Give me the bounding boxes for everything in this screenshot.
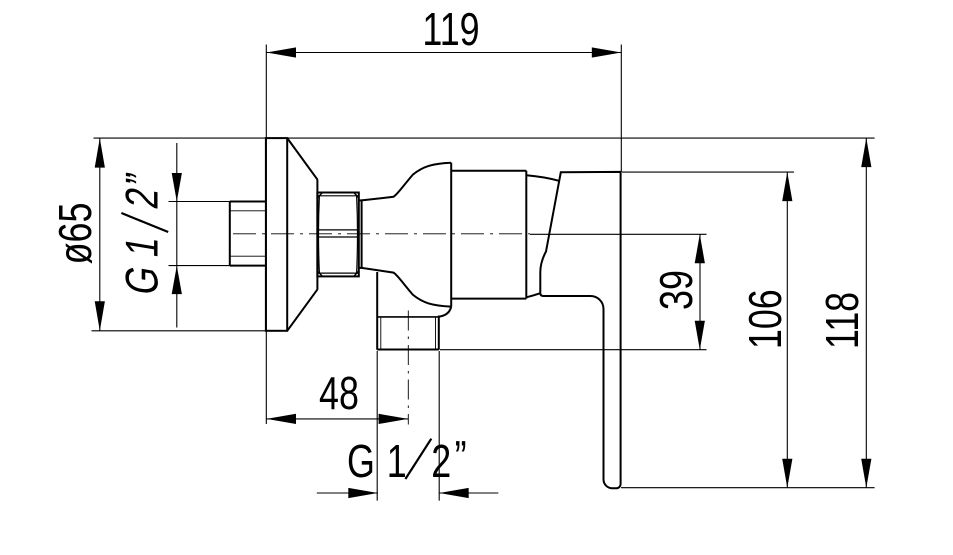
handle outline (540, 172, 620, 488)
dimension G12 top arrow (points down) (172, 173, 182, 202)
dimension 39 top arrow (695, 234, 705, 263)
body neck bottom curve (362, 268, 452, 307)
extension line flange bottom (dim phi65) (92, 330, 266, 332)
svg-text:106: 106 (740, 289, 791, 349)
dimension 48 left arrow (267, 414, 297, 424)
outlet left edge (376, 272, 378, 350)
dimension 118 bottom arrow (861, 459, 871, 488)
outlet thread top line (377, 316, 439, 318)
dimension 106 top arrow (782, 172, 792, 201)
nut right facet arc (356, 196, 359, 273)
bottom thread dim left tail (317, 492, 378, 494)
horizontal centerline dash-dot (233, 233, 530, 235)
G12 bottom extension line (169, 265, 230, 267)
label G 1/2 left fraction slash (121, 213, 168, 232)
cylinder right edge (525, 171, 527, 299)
nut corner chamfer marks (317, 193, 358, 277)
dimension phi65 line (99, 138, 101, 331)
dimension 119 right arrow (592, 47, 622, 57)
inlet stub outline (230, 202, 266, 266)
bottom thread dim left arrow (points right) (348, 488, 378, 498)
outlet thread bottom line (377, 349, 439, 351)
dimension 39 line (699, 234, 701, 349)
nut top inner line (317, 195, 358, 197)
cylinder bottom edge (451, 298, 526, 300)
dimension 119 left arrow (267, 47, 297, 57)
nut left facet arc (318, 196, 321, 273)
dimension 118 top arrow (861, 138, 871, 167)
adapter ring (359, 200, 362, 268)
flange cone lower diagonal (288, 289, 318, 330)
svg-text:118: 118 (817, 292, 868, 349)
dimension 106 bottom arrow (782, 459, 792, 488)
dimension 48 right arrow (379, 414, 409, 424)
flange cone upper diagonal (288, 139, 318, 180)
dimension G12 left line (176, 143, 178, 328)
dim 106/118 bottom extension line (621, 487, 875, 489)
nut middle facet lines (317, 230, 358, 237)
dimension 119 line (266, 52, 621, 54)
label G 1/2 bottom fraction slash (405, 439, 431, 479)
bonnet top curve (526, 175, 559, 181)
svg-text:39: 39 (651, 270, 702, 310)
extension line handle right (dim 119) (620, 45, 622, 173)
dimension phi65 top arrow (95, 138, 105, 168)
outlet right edge (438, 316, 440, 350)
inlet stub thread root lines (231, 211, 266, 256)
bottom thread dim right tail (439, 492, 498, 494)
cylinder left edge (450, 163, 452, 307)
nut bottom inner line (317, 272, 358, 274)
dimension phi65 bottom arrow (95, 301, 105, 331)
cylinder top edge (451, 170, 526, 172)
outlet thread root lines (381, 318, 436, 350)
extension line flange left (dims 119/48) (265, 45, 267, 425)
dimension 39 bottom arrow (695, 321, 705, 350)
dim 106 top extension line (622, 171, 794, 173)
vertical outlet centerline dash-dot (407, 311, 409, 425)
outlet fillet to body (439, 307, 451, 317)
flange cone right edge (316, 180, 318, 289)
horizontal centerline solid extension for dim 39 (530, 233, 707, 235)
bonnet bottom curve (526, 293, 540, 297)
dim 39 bottom extension line (440, 349, 707, 351)
svg-text:48: 48 (319, 368, 359, 419)
dimension G12 bottom arrow (points up) (172, 266, 182, 295)
G12 top extension line (169, 201, 230, 203)
bottom thread dim right arrow (points left) (439, 488, 469, 498)
svg-text:ø65: ø65 (50, 203, 101, 265)
extension line top (flange top to dim 118) (94, 137, 875, 139)
dimension 48 line (267, 418, 409, 420)
dimension 106 line (786, 172, 788, 488)
wall flange plate (266, 138, 287, 331)
dimension 118 line (865, 138, 867, 488)
hex nut outer rectangle (317, 193, 358, 277)
bottom thread dim extension lines (377, 351, 439, 501)
body neck top curve (362, 163, 452, 201)
svg-text:119: 119 (422, 4, 479, 55)
